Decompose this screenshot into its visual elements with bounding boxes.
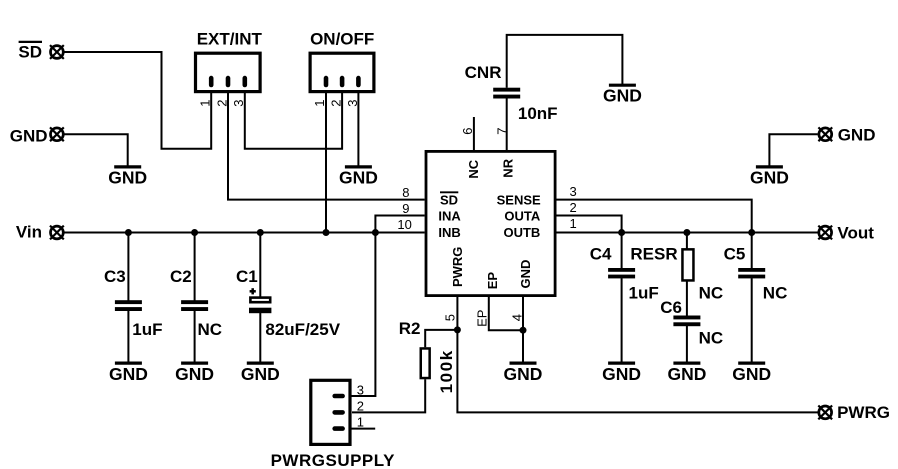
connector EXT/INT: [196, 53, 261, 91]
svg-text:1: 1: [198, 100, 213, 107]
terminal GND left: [50, 127, 64, 141]
svg-text:7: 7: [494, 128, 509, 135]
ground symbol C2: [175, 363, 214, 384]
wire GND terminal left to ground: [65, 134, 128, 166]
wire PWRGSUPPLY pin 1 stub: [340, 428, 375, 430]
svg-text:5: 5: [443, 314, 458, 321]
wire CNR bottom to IC pin 7 NR: [506, 99, 508, 152]
svg-text:82uF/25V: 82uF/25V: [265, 320, 340, 339]
node C1/Vin: [257, 229, 264, 236]
capacitor C4: [608, 268, 635, 278]
svg-text:2: 2: [329, 100, 344, 107]
svg-text:R2: R2: [399, 319, 421, 338]
svg-text:NR: NR: [500, 158, 515, 177]
svg-text:1: 1: [357, 414, 364, 429]
node INA/Vin: [372, 229, 379, 236]
svg-text:EXT/INT: EXT/INT: [197, 30, 263, 49]
node C3/Vin: [125, 229, 132, 236]
svg-text:GND: GND: [241, 364, 280, 384]
ground symbol IC pin 4: [504, 363, 543, 384]
svg-text:GND: GND: [518, 260, 533, 289]
svg-text:GND: GND: [602, 364, 641, 384]
svg-text:3: 3: [357, 383, 364, 398]
pin stub 3: [335, 394, 343, 399]
svg-text:INB: INB: [438, 225, 460, 240]
connector ON/OFF: [310, 53, 374, 91]
pin stub 1: [324, 78, 329, 85]
capacitor C6: [673, 316, 700, 327]
svg-text:9: 9: [402, 201, 409, 216]
svg-text:1uF: 1uF: [132, 320, 162, 339]
wire Vout rail: [557, 232, 819, 234]
wire SD terminal to EXT/INT pin 1: [65, 52, 212, 149]
wire GND terminal right to ground: [769, 134, 817, 166]
svg-text:C1: C1: [236, 267, 258, 286]
capacitor C3: [115, 300, 142, 311]
op-amp/regulator IC U1: [426, 151, 555, 295]
svg-text:GND: GND: [109, 364, 148, 384]
capacitor C5: [738, 268, 765, 278]
svg-text:C5: C5: [724, 245, 746, 264]
svg-text:2: 2: [214, 100, 229, 107]
svg-text:SD: SD: [440, 192, 458, 207]
svg-text:PWRG: PWRG: [450, 247, 465, 287]
wire ON/OFF pin 3 to ground: [357, 85, 359, 166]
wire C1 bottom to ground: [259, 313, 261, 362]
node C2/Vin: [191, 229, 198, 236]
svg-text:OUTA: OUTA: [504, 208, 540, 223]
wire C3 top: [127, 233, 129, 301]
ground symbol C5: [732, 363, 771, 384]
svg-text:1: 1: [312, 100, 327, 107]
svg-text:3: 3: [570, 184, 577, 199]
svg-text:10nF: 10nF: [518, 104, 558, 123]
svg-text:NC: NC: [699, 284, 724, 303]
wire C2 bottom to ground: [194, 311, 196, 363]
svg-text:OUTB: OUTB: [503, 225, 540, 240]
svg-text:NC: NC: [763, 284, 788, 303]
svg-text:GND: GND: [175, 364, 214, 384]
wire IC pin 6 NC stub: [473, 117, 475, 151]
pin stub 2: [335, 410, 343, 415]
svg-text:GND: GND: [339, 167, 378, 187]
svg-text:PWRG: PWRG: [837, 403, 890, 422]
svg-text:1: 1: [570, 216, 577, 231]
svg-text:EP: EP: [475, 310, 490, 327]
node R2/pin5: [454, 326, 461, 333]
terminal GND right: [818, 127, 832, 141]
label SD with overline: [18, 42, 42, 62]
ground symbol C4: [602, 363, 641, 384]
svg-text:RESR: RESR: [630, 245, 677, 264]
wire Vin rail: [65, 232, 425, 234]
capacitor C2: [181, 300, 208, 311]
ground symbol below GND terminal: [108, 167, 147, 187]
svg-text:GND: GND: [750, 167, 789, 187]
wire C1 top: [259, 233, 261, 297]
wire C5 bottom to ground: [751, 278, 753, 362]
svg-text:EP: EP: [485, 272, 500, 290]
terminal Vout: [818, 226, 832, 240]
wire PWRGSUPPLY pin 2 to R2 bottom: [352, 379, 425, 412]
svg-text:2: 2: [570, 200, 577, 215]
pin stub 3: [243, 78, 248, 85]
svg-text:GND: GND: [504, 364, 543, 384]
wire PWRGSUPPLY pin 3 to Vin rail and IC pin 9: [340, 216, 425, 397]
resistor R2: [421, 348, 430, 378]
wire IC pin 3 SENSE to Vout rail: [557, 200, 752, 233]
svg-text:GND: GND: [603, 86, 642, 106]
node C4/Vout: [618, 229, 625, 236]
pin stub 2: [340, 78, 345, 85]
resistor RESR: [682, 249, 693, 280]
wire ON/OFF pin 1 to Vin rail: [325, 85, 327, 233]
wire C4 top: [621, 233, 623, 269]
connector PWRGSUPPLY: [311, 380, 350, 444]
node ON/OFF pin1/Vin: [323, 229, 330, 236]
ground symbol C3: [109, 363, 148, 384]
pin stub 3: [356, 78, 361, 85]
svg-text:3: 3: [345, 100, 360, 107]
svg-text:GND: GND: [732, 364, 771, 384]
svg-text:100k: 100k: [437, 349, 456, 393]
ground symbol C1: [241, 363, 280, 384]
ground symbol CNR: [603, 85, 642, 105]
svg-text:GND: GND: [667, 364, 706, 384]
node EP/pin4: [520, 327, 527, 334]
svg-text:SD: SD: [18, 43, 42, 62]
terminal Vin: [50, 226, 64, 240]
IC pin label SD with overline: [440, 192, 458, 207]
svg-text:Vin: Vin: [16, 223, 42, 242]
wire EXT/INT pin 2 to IC pin 8: [228, 85, 425, 200]
svg-text:NC: NC: [466, 159, 481, 178]
wire IC EP pin to pin 4: [489, 297, 523, 330]
svg-text:1uF: 1uF: [629, 284, 659, 303]
wire R2 top to IC pin 5: [425, 330, 457, 347]
terminal PWRG: [818, 406, 832, 420]
svg-text:2: 2: [357, 399, 364, 414]
junction dots: [125, 229, 755, 334]
ground symbol ON/OFF pin 3: [339, 167, 378, 187]
node C5/Vout: [748, 229, 755, 236]
svg-text:8: 8: [402, 185, 409, 200]
ground symbol right: [750, 167, 789, 187]
svg-text:GND: GND: [10, 127, 48, 146]
svg-text:C3: C3: [104, 267, 126, 286]
svg-text:NC: NC: [198, 320, 223, 339]
wire C3 bottom to ground: [127, 311, 129, 363]
wire CNR top to GND: [507, 35, 623, 88]
wire C5 top: [751, 233, 753, 269]
svg-text:C4: C4: [590, 245, 612, 264]
svg-text:6: 6: [460, 128, 475, 135]
svg-text:INA: INA: [438, 208, 461, 223]
svg-text:C6: C6: [660, 298, 682, 317]
wire IC pin 4 GND to ground: [522, 297, 524, 362]
svg-text:Vout: Vout: [837, 224, 874, 243]
pin stub 1: [209, 78, 214, 85]
wire IC pin 2 OUTA to Vout rail: [557, 216, 622, 233]
wire IC pin 5 PWRG to PWRG terminal: [457, 297, 818, 412]
svg-text:3: 3: [231, 100, 246, 107]
svg-text:GND: GND: [838, 126, 876, 145]
wire RESR bottom to C6: [686, 281, 688, 316]
node RESR/Vout: [683, 229, 690, 236]
wire RESR top: [686, 233, 688, 250]
svg-text:PWRGSUPPLY: PWRGSUPPLY: [271, 451, 396, 469]
capacitor C1 polarized: [249, 288, 271, 313]
wire EXT/INT pin 3 to ON/OFF pin 2: [245, 85, 342, 149]
ground symbol C6: [667, 363, 706, 384]
wire C6 bottom to ground: [686, 326, 688, 362]
pin stub 2: [226, 78, 231, 85]
svg-text:GND: GND: [108, 167, 147, 187]
capacitor CNR: [493, 88, 520, 99]
svg-text:NC: NC: [699, 329, 724, 348]
svg-text:SENSE: SENSE: [497, 192, 541, 207]
pin stub 1: [335, 426, 343, 431]
terminal SD: [50, 45, 64, 59]
svg-text:C2: C2: [170, 267, 192, 286]
svg-text:4: 4: [510, 314, 525, 321]
svg-text:ON/OFF: ON/OFF: [310, 30, 374, 49]
svg-text:10: 10: [397, 217, 411, 232]
wire C2 top: [194, 233, 196, 301]
wire C4 bottom to ground: [621, 278, 623, 362]
svg-text:CNR: CNR: [465, 63, 502, 82]
